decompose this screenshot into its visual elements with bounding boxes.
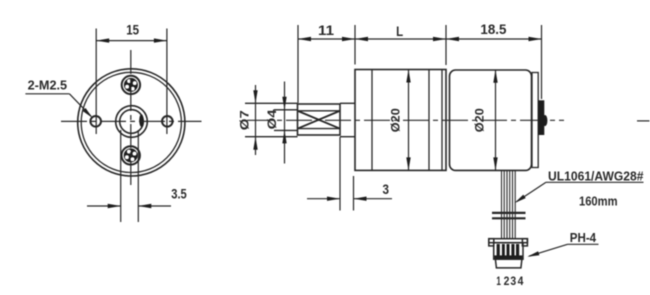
vertical centerline front view — [130, 50, 132, 189]
worm cross diagonal 1 — [298, 111, 340, 128]
arrow 11 right — [342, 37, 355, 41]
dia4 arrow top — [282, 97, 286, 110]
ext line x340 (dim 3) — [339, 137, 341, 211]
connector ear right — [522, 239, 527, 246]
shaft dia4 top line — [274, 109, 298, 111]
extension line left (dim 3.5) — [120, 130, 122, 222]
dimension line 3 left segment — [307, 198, 340, 200]
svg-text:2: 2 — [504, 276, 510, 288]
connector dark base band — [494, 255, 522, 259]
ext line x353.5 (dim 3) — [353, 176, 355, 211]
wire 4 — [509, 171, 511, 239]
horizontal centerline side view — [247, 119, 564, 121]
arrow L right — [433, 37, 446, 41]
gearbox internal line 2 — [428, 70, 430, 171]
motor outer circle (front view) — [78, 69, 185, 176]
mounting hole left — [90, 116, 101, 127]
wire 5 — [512, 171, 514, 239]
terminal bump — [543, 115, 548, 126]
terminal tab black — [539, 100, 545, 135]
wire 1 — [501, 171, 503, 239]
svg-text:3.5: 3.5 — [171, 186, 187, 202]
extension line right (dim 15) — [166, 29, 168, 135]
dia20 motor arrow up — [493, 70, 497, 83]
dia20 gearbox arrow up — [406, 70, 410, 83]
gearbox internal line 1 — [371, 70, 373, 171]
svg-text:Ø7: Ø7 — [239, 110, 251, 130]
connector flange — [489, 239, 528, 243]
dimension line 3 right segment — [354, 198, 393, 200]
connector pin 3 — [507, 244, 510, 256]
shaft circle — [120, 110, 144, 134]
svg-text:PH-4: PH-4 — [570, 230, 597, 245]
gearbox body — [355, 70, 446, 171]
svg-text:15: 15 — [126, 21, 139, 37]
worm cross diagonal 2 — [298, 111, 340, 128]
dia7 arrow top — [253, 90, 257, 103]
svg-text:Ø20: Ø20 — [390, 108, 402, 132]
extension line right (dim 3.5) — [137, 130, 139, 222]
ext line x446 (dim L/18.5) — [445, 25, 447, 65]
svg-text:L: L — [396, 23, 403, 39]
leader 2-M2.5 arrow — [83, 108, 93, 118]
centerline far right dash — [637, 120, 650, 122]
arrow 3 right — [354, 197, 367, 201]
svg-text:4: 4 — [518, 276, 524, 288]
arrow 3 left — [327, 197, 340, 201]
arrow 18.5 right — [529, 37, 542, 41]
dia20 gearbox dimension line — [408, 70, 410, 171]
svg-text:1: 1 — [496, 276, 501, 288]
dimension line 15 — [96, 40, 167, 42]
ext line x355 (dim 11/L) — [354, 25, 356, 65]
connector pin 1 — [497, 244, 500, 256]
dia20 motor arrow down — [493, 157, 497, 170]
svg-text:11: 11 — [318, 22, 334, 38]
arrow 15 left — [96, 38, 109, 42]
ext line x541.5 (dim 18.5) — [541, 25, 543, 99]
cable band top — [492, 212, 526, 214]
svg-text:Ø20: Ø20 — [474, 108, 486, 132]
leader UL diagonal — [517, 182, 547, 201]
shaft dia7 top line — [245, 102, 298, 104]
connector pin 2 — [502, 244, 505, 256]
svg-text:18.5: 18.5 — [480, 21, 506, 37]
dia20 motor dimension line — [495, 70, 497, 171]
shaft dia7 bottom line — [245, 136, 298, 138]
extension line left (dim 15) — [95, 29, 97, 135]
wire 6 — [514, 171, 516, 239]
dia20 gearbox arrow down — [406, 157, 410, 170]
dimension line 3.5 right segment — [138, 205, 171, 207]
arrow 11 left — [298, 37, 311, 41]
wire 2 — [503, 171, 505, 239]
svg-text:2-M2.5: 2-M2.5 — [28, 77, 68, 92]
leader UL underline — [546, 181, 644, 183]
shaft dia4 bottom line — [274, 129, 298, 131]
dimension line 3.5 left segment — [87, 205, 121, 207]
leader 2-M2.5 diagonal — [69, 94, 91, 116]
arrow 18.5 left — [446, 37, 459, 41]
svg-text:Ø4: Ø4 — [267, 109, 279, 130]
leader PH arrow — [527, 251, 539, 257]
horizontal centerline front view — [61, 120, 202, 122]
center boss outer circle — [116, 106, 148, 138]
arrow 3.5 left — [108, 204, 121, 208]
dia7 dimension line — [255, 85, 257, 155]
stub shaft bottom line — [340, 136, 355, 138]
dia7 arrow bottom — [253, 137, 257, 150]
connector pin 4 — [511, 244, 514, 256]
connector pin 5 — [516, 244, 519, 256]
motor body rounded — [450, 70, 532, 170]
svg-text:UL1061/AWG28#: UL1061/AWG28# — [548, 168, 644, 183]
worm inner bottom line — [298, 128, 341, 130]
svg-text:3: 3 — [383, 181, 390, 197]
cable band bottom — [492, 217, 526, 219]
gearbox end plate line — [441, 70, 443, 171]
stub shaft top line — [340, 102, 355, 104]
dia4 arrow bottom — [282, 130, 286, 143]
top dimension line — [298, 38, 542, 40]
leader PH underline — [568, 243, 599, 245]
connector bottom skirt — [495, 259, 522, 268]
leader PH diagonal — [529, 244, 568, 256]
connector ear left — [489, 239, 494, 246]
mounting hole right — [162, 116, 173, 127]
leader 2-M2.5 underline — [25, 93, 69, 95]
worm inner top line — [298, 110, 341, 112]
motor inner rim circle — [81, 72, 181, 172]
connector body — [494, 243, 523, 260]
screw bottom — [122, 146, 140, 164]
dia4 dimension line — [284, 82, 286, 164]
arrow L left — [355, 37, 368, 41]
ext line x298 (dim 11) — [297, 25, 299, 103]
screw top — [122, 76, 140, 94]
motor end cap — [532, 73, 538, 168]
shaft key mark — [139, 114, 143, 127]
svg-text:160mm: 160mm — [579, 194, 618, 209]
wire 3 — [506, 171, 508, 239]
leader UL arrow — [515, 195, 526, 203]
arrow 15 right — [154, 38, 167, 42]
svg-text:3: 3 — [510, 276, 516, 288]
arrow 3.5 right — [138, 204, 151, 208]
worm gear box — [298, 104, 341, 135]
